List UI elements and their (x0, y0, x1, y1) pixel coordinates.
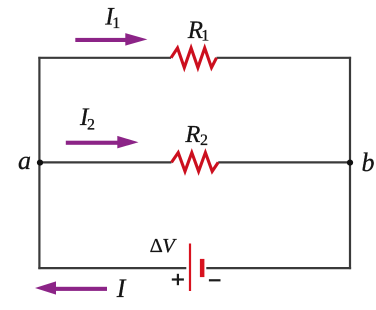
wire middle-right segment (R2 to b) (218, 161, 350, 163)
node b (junction dot) (347, 160, 353, 166)
svg-text:R: R (184, 121, 200, 148)
svg-text:1: 1 (201, 28, 209, 45)
wire middle-left segment (a to R2) (39, 161, 171, 163)
label I current arrow (bottom, leftward) (35, 281, 107, 294)
svg-text:a: a (18, 146, 31, 175)
battery minus sign (209, 279, 221, 281)
svg-text:2: 2 (200, 132, 208, 149)
wire top-left segment (38, 57, 171, 59)
battery positive plate (long) (189, 244, 191, 292)
svg-text:b: b (362, 148, 375, 177)
wire right vertical (349, 57, 351, 269)
resistor R1 (171, 48, 217, 68)
wire top-right segment (217, 57, 352, 59)
battery negative plate (short thick) (200, 259, 205, 277)
label I2 current arrow (66, 136, 139, 149)
resistor R2 (172, 153, 219, 172)
svg-text:1: 1 (112, 15, 120, 32)
wire left vertical (38, 57, 40, 269)
svg-text:I: I (116, 274, 127, 303)
node a (junction dot) (37, 160, 43, 166)
battery plus sign (172, 278, 184, 280)
label I1 current arrow (75, 33, 147, 46)
svg-text:V: V (162, 235, 177, 257)
wire bottom-right segment (206, 267, 351, 269)
svg-text:Δ: Δ (150, 235, 163, 257)
svg-text:2: 2 (87, 117, 95, 134)
wire bottom-left segment (38, 267, 186, 269)
